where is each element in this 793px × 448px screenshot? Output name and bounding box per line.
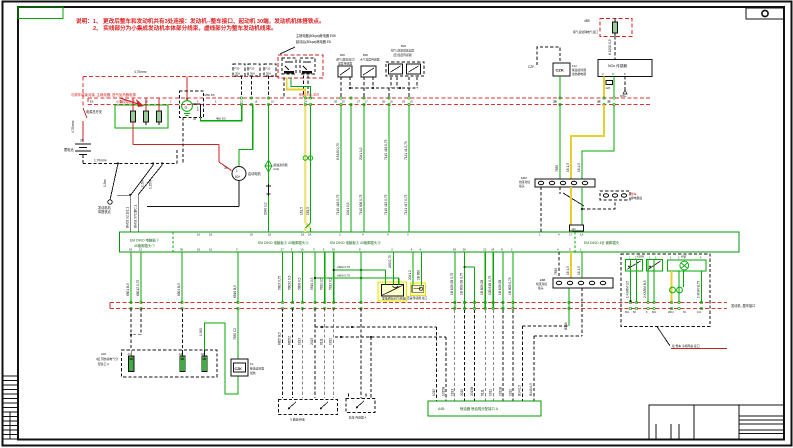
svg-text:A60A 0,75: A60A 0,75 <box>337 274 350 278</box>
svg-text:7140 415 0,75: 7140 415 0,75 <box>384 194 388 215</box>
svg-text:37C.1: 37C.1 <box>134 204 138 213</box>
svg-text:26: 26 <box>463 248 467 252</box>
svg-text:5811 0,5: 5811 0,5 <box>320 278 324 290</box>
svg-text:蓄电池: 蓄电池 <box>64 147 74 152</box>
svg-text:EM DINO 电脑板② 40管脚插头②: EM DINO 电脑板② 40管脚插头② <box>258 240 309 245</box>
svg-text:7140 418 0,75: 7140 418 0,75 <box>336 194 340 215</box>
svg-text:E6: E6 <box>90 100 94 104</box>
svg-text:(压)温度传感器: (压)温度传感器 <box>393 53 412 57</box>
svg-text:A1: A1 <box>128 352 132 356</box>
svg-text:6805 B,5: 6805 B,5 <box>278 332 282 345</box>
svg-text:1B 10B 0B: 1B 10B 0B <box>498 280 502 295</box>
svg-text:发电机指示灯(充电): 发电机指示灯(充电) <box>382 297 406 301</box>
svg-text:3C: 3C <box>683 311 686 314</box>
svg-text:B96: B96 <box>363 53 368 57</box>
svg-text:1B 10B 0B 0,75: 1B 10B 0B 0,75 <box>450 272 454 295</box>
svg-text:30: 30 <box>180 248 184 252</box>
svg-text:说明：1、 更改后整车和发动机共有3处连接：发动机--整车接: 说明：1、 更改后整车和发动机共有3处连接：发动机--整车接口、起动机 30端，… <box>76 17 325 25</box>
svg-text:B20: B20 <box>340 53 345 57</box>
svg-text:KSRM: KSRM <box>637 256 644 259</box>
svg-text:F10: F10 <box>266 67 271 71</box>
svg-text:30A: 30A <box>235 72 240 76</box>
svg-text:1041 0,5: 1041 0,5 <box>346 202 350 215</box>
svg-text:7830: 7830 <box>555 165 559 172</box>
svg-text:1.35m²: 1.35m² <box>149 179 153 189</box>
svg-text:18: 18 <box>209 233 213 237</box>
svg-text:接 整车 冷却风扇 接口: 接 整车 冷却风扇 接口 <box>672 344 700 348</box>
svg-text:28C1: 28C1 <box>668 311 674 314</box>
svg-text:10: 10 <box>209 248 213 252</box>
svg-text:1 MSR B,75: 1 MSR B,75 <box>697 281 701 298</box>
svg-text:16 1,5: 16 1,5 <box>566 163 570 172</box>
svg-text:尾气后处理电气接口: 尾气后处理电气接口 <box>573 30 598 34</box>
svg-text:温度传感器: 温度传感器 <box>338 62 352 66</box>
svg-text:6801Z 0,75: 6801Z 0,75 <box>136 280 140 296</box>
svg-text:2A: 2A <box>308 233 312 237</box>
svg-text:1811: 1811 <box>508 389 512 396</box>
svg-text:120: 120 <box>572 228 577 231</box>
svg-text:A2: A2 <box>201 352 205 356</box>
svg-text:轨压 传感器 A: 轨压 传感器 A <box>349 416 367 420</box>
svg-text:92.1: 92.1 <box>126 207 130 213</box>
svg-text:1813: 1813 <box>450 389 454 396</box>
svg-text:8111: 8111 <box>481 389 485 396</box>
svg-text:DIN+: DIN+ <box>620 94 627 98</box>
svg-text:1A: 1A <box>240 100 243 103</box>
svg-text:1812: 1812 <box>489 389 493 396</box>
svg-text:7140 416 0,75: 7140 416 0,75 <box>384 139 388 160</box>
svg-text:排气(涡轮增压温度: 排气(涡轮增压温度 <box>391 49 415 53</box>
svg-text:加热继电器: 加热继电器 <box>572 72 586 76</box>
svg-text:NOx 传感器: NOx 传感器 <box>608 63 627 68</box>
svg-text:1811B: 1811B <box>499 387 503 396</box>
svg-text:7830: 7830 <box>554 268 558 275</box>
svg-text:18: 18 <box>268 233 272 237</box>
svg-text:34: 34 <box>193 117 197 121</box>
svg-text:2015: 2015 <box>310 338 314 345</box>
svg-text:6 120Ω 0,5: 6 120Ω 0,5 <box>608 39 612 55</box>
svg-text:10: 10 <box>300 248 304 252</box>
svg-text:插头: 插头 <box>538 286 544 290</box>
svg-text:2015: 2015 <box>460 389 464 396</box>
svg-text:8C1: 8C1 <box>652 311 657 314</box>
svg-text:8111: 8111 <box>320 338 324 345</box>
svg-text:7830 C2: 7830 C2 <box>233 328 237 340</box>
svg-text:120: 120 <box>606 86 611 90</box>
svg-text:1 900: 1 900 <box>199 328 203 336</box>
svg-text:绿白, 黄白, 黑白: 绿白, 黄白, 黑白 <box>299 93 319 97</box>
svg-text:1812: 1812 <box>329 338 333 345</box>
svg-text:A4: A4 <box>179 352 183 356</box>
svg-text:A18: A18 <box>101 352 106 356</box>
svg-text:M50 3/5: M50 3/5 <box>205 93 216 97</box>
svg-text:161,5: 161,5 <box>306 207 310 215</box>
svg-text:50+: 50+ <box>235 175 241 179</box>
svg-text:1B 80B 0B 0,75: 1B 80B 0B 0,75 <box>460 272 464 295</box>
svg-text:22: 22 <box>483 248 487 252</box>
svg-text:27: 27 <box>357 100 361 104</box>
svg-text:1C1: 1C1 <box>697 311 702 314</box>
svg-text:7141 41 0,75: 7141 41 0,75 <box>404 141 408 160</box>
svg-text:A60 0,75: A60 0,75 <box>388 255 392 268</box>
svg-text:与原车线束对接, 主继电器, 进气加热器电源: 与原车线束对接, 主继电器, 进气加热器电源 <box>71 92 136 97</box>
svg-text:(G2): (G2) <box>274 167 280 171</box>
svg-text:16 1,5: 16 1,5 <box>566 266 570 275</box>
svg-text:1A: 1A <box>250 233 254 237</box>
svg-text:2#: 2# <box>80 139 84 143</box>
svg-text:4B0 3/5: 4B0 3/5 <box>216 116 226 120</box>
svg-text:EM DINO 电脑板①: EM DINO 电脑板① <box>130 238 160 243</box>
svg-text:配接口 A: 配接口 A <box>98 362 109 366</box>
svg-text:1015B: 1015B <box>441 387 445 396</box>
svg-text:1A: 1A <box>580 233 584 237</box>
svg-text:B14 0,5: B14 0,5 <box>518 385 522 396</box>
svg-text:24: 24 <box>491 248 495 252</box>
svg-text:EM DINO 4针 管脚插头: EM DINO 4针 管脚插头 <box>584 240 620 245</box>
svg-text:EM DINO 电脑板③ 40管脚插头③: EM DINO 电脑板③ 40管脚插头③ <box>330 240 381 245</box>
svg-text:5803Z 0,5: 5803Z 0,5 <box>288 275 292 290</box>
svg-text:5808 0,5: 5808 0,5 <box>297 277 301 290</box>
svg-text:柴油滤清器: 柴油滤清器 <box>250 367 264 371</box>
svg-text:26: 26 <box>334 100 338 104</box>
svg-text:4B5: 4B5 <box>584 19 590 23</box>
svg-text:1B 80B 0,75: 1B 80B 0,75 <box>508 277 512 295</box>
svg-text:电源总开关: 电源总开关 <box>86 109 103 114</box>
svg-text:8C1: 8C1 <box>625 311 630 314</box>
svg-text:6805Z: 6805Z <box>288 336 292 345</box>
svg-text:6816 B,5: 6816 B,5 <box>233 285 237 298</box>
svg-text:BM01 92.1: BM01 92.1 <box>126 212 130 228</box>
svg-text:16: 16 <box>197 233 201 237</box>
svg-text:N 曲轴 转速: N 曲轴 转速 <box>290 418 305 422</box>
svg-text:F20: F20 <box>250 67 255 71</box>
svg-text:40管脚插头①: 40管脚插头① <box>134 243 155 248</box>
svg-text:B20: B20 <box>401 44 406 48</box>
svg-text:发动机--整车接口: 发动机--整车接口 <box>731 303 755 308</box>
svg-text:F30: F30 <box>235 67 240 71</box>
svg-text:18: 18 <box>301 233 305 237</box>
svg-text:7140 806 0,75: 7140 806 0,75 <box>359 194 363 215</box>
svg-text:12: 12 <box>139 248 143 252</box>
svg-text:17: 17 <box>569 233 573 237</box>
svg-text:5813 0,5: 5813 0,5 <box>329 277 333 290</box>
svg-text:2015B: 2015B <box>470 387 474 396</box>
svg-text:2040 1,0: 2040 1,0 <box>264 202 268 215</box>
svg-text:161,5: 161,5 <box>300 207 304 215</box>
svg-text:1813: 1813 <box>297 338 301 345</box>
svg-text:1.5m²: 1.5m² <box>141 179 145 187</box>
svg-text:10B 81B 0,75: 10B 81B 0,75 <box>488 275 492 295</box>
svg-text:2041.2: 2041.2 <box>408 270 412 280</box>
svg-text:2041 1,0: 2041 1,0 <box>359 147 363 160</box>
svg-text:10: 10 <box>332 248 336 252</box>
svg-text:5803 0,75: 5803 0,75 <box>278 276 282 290</box>
svg-text:CZK: CZK <box>556 68 564 73</box>
svg-text:1.70mm²: 1.70mm² <box>94 159 107 163</box>
svg-text:1B 80B 0B: 1B 80B 0B <box>480 280 484 295</box>
svg-text:2 KSRM B,5: 2 KSRM B,5 <box>643 280 647 298</box>
svg-text:1A: 1A <box>145 100 148 103</box>
svg-text:4缸 预热塞电气分: 4缸 预热塞电气分 <box>96 357 118 361</box>
svg-text:压差传感器 接口: 压差传感器 接口 <box>407 296 428 300</box>
svg-text:1015: 1015 <box>432 389 436 396</box>
svg-text:A60A 0,75: A60A 0,75 <box>337 265 350 269</box>
svg-text:5810 0,5: 5810 0,5 <box>310 277 314 290</box>
svg-text:28: 28 <box>453 248 457 252</box>
svg-text:1: 1 <box>236 169 238 173</box>
svg-text:6801 B,5: 6801 B,5 <box>126 283 130 296</box>
svg-text:CZF-: CZF- <box>528 65 535 69</box>
svg-text:G: G <box>185 106 188 110</box>
svg-text:F0: F0 <box>250 362 254 366</box>
svg-text:1.5m²: 1.5m² <box>103 179 107 187</box>
svg-text:起动后(80kpa)继电器 E8: 起动后(80kpa)继电器 E8 <box>296 39 331 44</box>
svg-text:2、 实线部分为小集成发动机本体部分线束，虚线部分为整车发动: 2、 实线部分为小集成发动机本体部分线束，虚线部分为整车发动机线束。 <box>93 24 277 32</box>
svg-text:30A: 30A <box>250 72 255 76</box>
svg-text:B14A: B14A <box>564 321 568 330</box>
svg-text:29: 29 <box>402 100 406 104</box>
svg-text:16 1,5: 16 1,5 <box>577 266 581 275</box>
svg-text:6804 B,5: 6804 B,5 <box>177 283 181 296</box>
svg-text:大气温度传感器: 大气温度传感器 <box>360 58 380 62</box>
svg-text:继电器盒: 继电器盒 <box>631 196 642 200</box>
svg-text:18: 18 <box>129 248 133 252</box>
svg-text:主继电器(80kpa)继电器 E8K: 主继电器(80kpa)继电器 E8K <box>296 33 337 38</box>
svg-text:加热: 加热 <box>250 371 256 375</box>
svg-text:CZK: CZK <box>235 367 243 371</box>
svg-text:16 1,5: 16 1,5 <box>577 163 581 172</box>
svg-text:8C: 8C <box>633 311 636 314</box>
svg-text:A4B: A4B <box>438 407 445 411</box>
svg-text:体搭铁点: 体搭铁点 <box>98 209 112 214</box>
svg-text:30: 30 <box>224 166 228 170</box>
svg-text:6 8140 0,75: 6 8140 0,75 <box>336 143 340 160</box>
svg-text:7141 417 0,75: 7141 417 0,75 <box>404 194 408 215</box>
svg-text:16: 16 <box>197 248 201 252</box>
svg-text:B14A 0,5: B14A 0,5 <box>529 383 533 396</box>
svg-text:27: 27 <box>281 248 285 252</box>
svg-text:喷油器 喷油嘴分配接口 A: 喷油器 喷油嘴分配接口 A <box>460 406 499 411</box>
svg-text:30A: 30A <box>266 72 271 76</box>
svg-text:4.70mm²: 4.70mm² <box>71 120 75 133</box>
svg-text:2B 860: 2B 860 <box>417 270 421 280</box>
svg-text:26: 26 <box>382 100 386 104</box>
svg-text:1 KSRM 0,5: 1 KSRM 0,5 <box>626 281 630 298</box>
svg-text:1A: 1A <box>271 100 274 103</box>
svg-text:4.70mm²: 4.70mm² <box>134 70 147 74</box>
svg-text:插头: 插头 <box>519 184 525 188</box>
svg-text:启动电机: 启动电机 <box>248 171 262 176</box>
